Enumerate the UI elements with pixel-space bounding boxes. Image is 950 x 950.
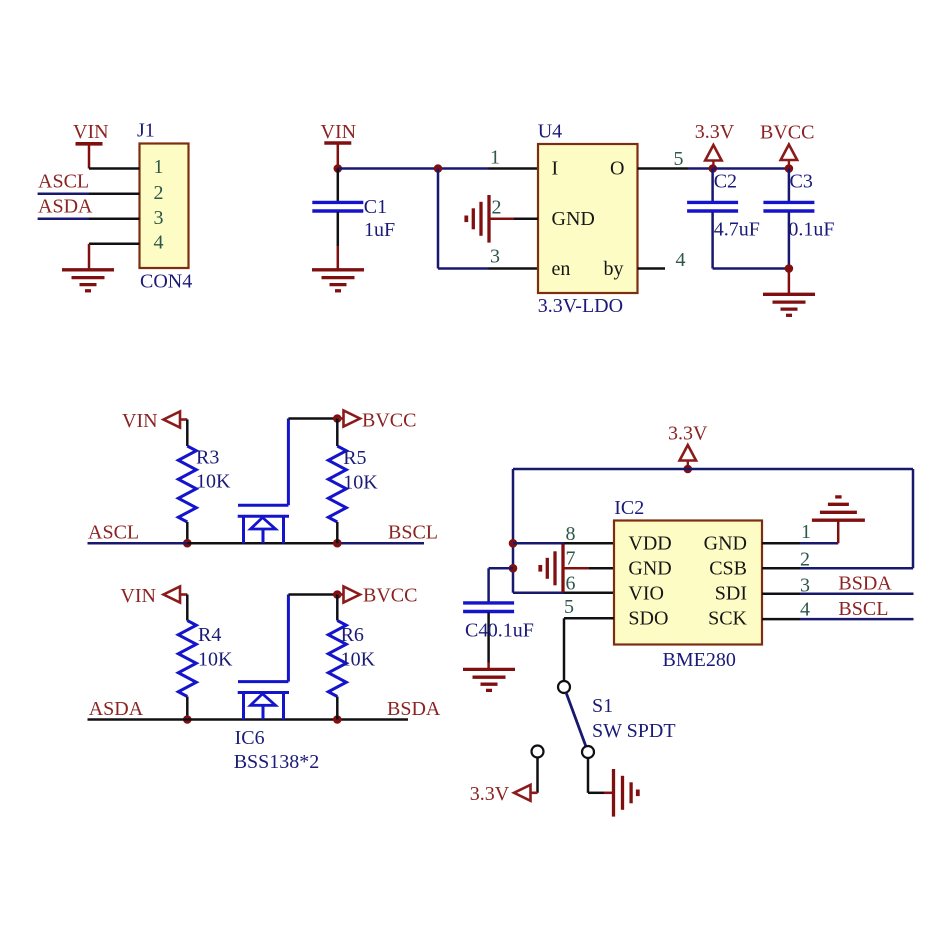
svg-text:3: 3: [154, 207, 164, 229]
resistor R4: [178, 621, 196, 697]
wire throw to 3.3V: [536, 758, 539, 793]
U4 pin name by: [604, 258, 624, 280]
value 3.3V-LDO: [538, 295, 623, 317]
node VDD junction: [509, 539, 518, 548]
node BSDA junction: [333, 715, 342, 724]
IC2 pin number 8: [566, 523, 576, 545]
power symbol BVCC (top): [760, 122, 814, 169]
node C4 junction: [509, 564, 518, 573]
svg-text:3.3V: 3.3V: [695, 121, 735, 143]
switch S1 blade: [566, 693, 586, 747]
svg-text:5: 5: [674, 148, 684, 170]
svg-text:5: 5: [564, 596, 574, 618]
svg-text:7: 7: [566, 548, 576, 570]
value BME280: [663, 649, 736, 671]
designator R3: [196, 447, 219, 469]
wire BSCL: [337, 542, 424, 545]
svg-text:2: 2: [492, 197, 502, 219]
IC2 pin name GND (left): [628, 558, 671, 580]
svg-text:O: O: [610, 158, 624, 180]
net label BSCL (IC2): [838, 598, 888, 620]
wire VIN to R3: [186, 420, 189, 447]
designator R5: [343, 447, 366, 469]
power symbol BVCC (arrow, shifter1): [337, 410, 416, 432]
wire junction to ground: [788, 269, 791, 295]
designator U4: [538, 121, 562, 143]
wire C2 bottom to C3 bottom: [713, 267, 789, 270]
svg-text:GND: GND: [704, 533, 747, 555]
resistor R3: [178, 446, 196, 522]
wire to IC2 VIO pin6: [513, 592, 614, 595]
designator IC6: [235, 727, 265, 749]
net label BSCL: [388, 522, 438, 544]
ground (J1): [62, 270, 114, 291]
U4 pin number 2: [492, 197, 502, 219]
svg-text:CSB: CSB: [709, 558, 747, 580]
wire VIN to R4: [186, 595, 189, 621]
node VIN junction: [334, 164, 343, 173]
svg-text:VIN: VIN: [120, 585, 156, 607]
designator C4: [465, 620, 488, 642]
svg-text:en: en: [552, 258, 571, 280]
IC2 pin name VIO: [628, 583, 664, 605]
wire IC2 pin2 to 3.3V rail: [762, 567, 913, 570]
wire IC2 pin5 (SDO) to S1: [564, 618, 614, 681]
power symbol VIN (bar) at C1: [321, 121, 357, 169]
ground (C4): [463, 669, 515, 690]
svg-text:VIN: VIN: [321, 121, 357, 143]
IC2 pin name SCK: [708, 608, 747, 630]
svg-text:10K: 10K: [343, 472, 378, 494]
svg-text:1uF: 1uF: [364, 219, 395, 241]
ground (C1): [312, 270, 364, 291]
wire ASDA to J1 pin3: [38, 218, 89, 221]
J1 pin 1: [89, 156, 164, 178]
node 3.3V junction (IC2): [684, 465, 693, 474]
svg-text:IC2: IC2: [614, 497, 644, 519]
wire pin1 ground stem: [837, 520, 840, 543]
net label ASCL: [88, 522, 139, 544]
svg-text:10K: 10K: [198, 649, 233, 671]
wire ASCL: [88, 542, 188, 545]
wire gate to BVCC junction (shifter2): [288, 593, 337, 596]
value 10K (R6): [341, 649, 376, 671]
wire BSDA: [337, 718, 408, 721]
transistor Q1 (BSS138 a): [238, 505, 289, 543]
designator J1: [137, 120, 155, 142]
net label BSDA: [387, 698, 441, 720]
svg-text:VIN: VIN: [73, 121, 109, 143]
IC2 pin number 4: [800, 599, 810, 621]
power symbol VIN (arrow, shifter1): [122, 410, 187, 432]
net label ASDA (J1): [38, 195, 93, 217]
value 10K (R5): [343, 472, 378, 494]
wire IC2 pin1 to ground: [762, 542, 838, 545]
svg-text:R3: R3: [196, 447, 219, 469]
svg-text:SDO: SDO: [628, 608, 668, 630]
svg-text:ASDA: ASDA: [89, 698, 144, 720]
U4 pin name en: [552, 258, 571, 280]
svg-text:BSCL: BSCL: [838, 598, 888, 620]
wire ASDA: [88, 718, 188, 721]
designator R4: [198, 624, 221, 646]
wire rail right vertical: [912, 469, 915, 568]
svg-text:ASCL: ASCL: [88, 522, 139, 544]
capacitor C1: [312, 169, 363, 247]
value label CON4: [140, 271, 192, 293]
IC2 pin name CSB: [709, 558, 747, 580]
svg-text:4: 4: [800, 599, 810, 621]
designator C1: [364, 196, 387, 218]
svg-text:4.7uF: 4.7uF: [714, 219, 760, 241]
svg-text:U4: U4: [538, 121, 562, 143]
svg-text:3.3V: 3.3V: [668, 423, 708, 445]
wire Q2 gate riser: [287, 595, 290, 682]
svg-text:BVCC: BVCC: [760, 122, 814, 144]
svg-text:by: by: [604, 258, 624, 280]
value BSS138*2: [234, 751, 320, 773]
switch S1 throw contact (gnd side): [582, 746, 594, 758]
IC2 pin name SDO: [628, 608, 668, 630]
svg-text:8: 8: [566, 523, 576, 545]
power symbol BVCC (arrow, shifter2): [337, 585, 417, 607]
svg-text:BVCC: BVCC: [362, 410, 416, 432]
node cap-ground junction: [785, 264, 794, 273]
svg-text:4: 4: [154, 232, 164, 254]
svg-text:GND: GND: [628, 558, 671, 580]
IC2 pin number 7: [566, 548, 576, 570]
svg-text:BSCL: BSCL: [388, 522, 438, 544]
designator S1: [592, 695, 613, 717]
wire to IC2 VDD pin8: [513, 542, 614, 545]
node en-branch junction: [434, 164, 443, 173]
wire VIN to U4 pin1: [338, 167, 538, 170]
node ASDA junction: [183, 715, 192, 724]
svg-text:1: 1: [801, 521, 811, 543]
designator R6: [341, 624, 364, 646]
svg-text:3.3V: 3.3V: [470, 783, 510, 805]
U4 pin 4 stub: [638, 267, 666, 270]
svg-text:10K: 10K: [196, 471, 231, 493]
IC2 pin name VDD: [628, 533, 671, 555]
designator C3: [790, 171, 813, 193]
wire C4 tap: [489, 568, 513, 602]
switch S1 common contact: [558, 681, 570, 693]
wire gate to BVCC junction: [288, 417, 337, 420]
designator C2: [714, 171, 737, 193]
svg-text:CON4: CON4: [140, 271, 192, 293]
node BVCC junction (shifter1): [333, 414, 342, 423]
svg-text:R6: R6: [341, 624, 364, 646]
svg-text:BSDA: BSDA: [387, 698, 441, 720]
svg-text:C4: C4: [465, 620, 488, 642]
svg-text:SCK: SCK: [708, 608, 747, 630]
ic IC2 box: [614, 521, 762, 645]
capacitor C3: [763, 169, 814, 269]
U4 pin name I: [552, 158, 559, 180]
ground (IC2 pin7, rotated): [540, 545, 589, 593]
svg-text:C3: C3: [790, 171, 813, 193]
node BVCC junction: [785, 164, 794, 173]
svg-text:ASDA: ASDA: [38, 195, 93, 217]
switch S1 throw contact (3.3V side): [532, 746, 544, 758]
net label BSDA (IC2): [838, 573, 892, 595]
ground (IC2 pin1, inverted): [812, 497, 865, 520]
J1 pin 4: [89, 232, 164, 254]
svg-text:VIO: VIO: [628, 583, 664, 605]
U4 pin name O: [610, 158, 624, 180]
IC2 pin number 6: [566, 572, 576, 594]
wire branch to U4 pin3(en): [438, 169, 538, 269]
regulator U4 box: [538, 144, 638, 293]
wire ASDA to BSDA (under Q2): [187, 718, 337, 721]
wire IC2 pin3 (SDI) out: [762, 593, 914, 596]
U4 pin 2 stub: [489, 218, 539, 221]
wire throw to ground: [588, 758, 613, 793]
svg-text:BME280: BME280: [663, 649, 736, 671]
wire R4 to ASDA: [186, 697, 189, 720]
node BSCL junction: [333, 539, 342, 548]
svg-text:SW SPDT: SW SPDT: [592, 720, 676, 742]
wire 3.3V to BVCC: [713, 167, 789, 170]
svg-text:R4: R4: [198, 624, 221, 646]
power symbol VIN (bar) at J1: [73, 121, 109, 169]
ground (S1, rotated): [614, 769, 638, 817]
power symbol 3.3V (arrow, S1): [470, 783, 538, 805]
svg-text:4: 4: [676, 249, 686, 271]
svg-text:0.1uF: 0.1uF: [488, 620, 534, 642]
U4 pin name GND: [552, 208, 595, 230]
value SW SPDT: [592, 720, 676, 742]
wire C1 to ground: [337, 246, 340, 270]
J1 pin 3: [89, 207, 164, 229]
svg-text:S1: S1: [592, 695, 613, 717]
capacitor C4: [463, 603, 514, 663]
svg-text:10K: 10K: [341, 649, 376, 671]
U4 pin number 4: [676, 249, 686, 271]
capacitor C2: [687, 169, 738, 269]
connector J1 box: [140, 144, 189, 269]
transistor Q2 (BSS138 b): [238, 682, 289, 720]
IC2 pin name SDI: [715, 583, 747, 605]
IC2 pin number 5: [564, 596, 574, 618]
power symbol VIN (arrow, shifter2): [120, 585, 187, 607]
svg-text:R5: R5: [343, 447, 366, 469]
svg-text:3: 3: [490, 246, 500, 268]
resistor R6: [328, 595, 346, 720]
svg-text:1: 1: [490, 147, 500, 169]
svg-text:3.3V-LDO: 3.3V-LDO: [538, 295, 623, 317]
svg-text:VDD: VDD: [628, 533, 671, 555]
U4 pin number 3: [490, 246, 500, 268]
wire ASCL to BSCL (under Q1): [187, 542, 337, 545]
svg-text:BSDA: BSDA: [838, 573, 892, 595]
wire IC2 pin4 (SCK) out: [762, 618, 914, 621]
wire J1 pin4 to ground: [88, 244, 91, 270]
power symbol 3.3V (IC2): [668, 423, 708, 470]
IC2 pin7 stub: [588, 567, 614, 570]
svg-text:GND: GND: [552, 208, 595, 230]
U4 pin number 5: [674, 148, 684, 170]
svg-text:I: I: [552, 158, 559, 180]
svg-text:BVCC: BVCC: [363, 585, 417, 607]
U4 pin number 1: [490, 147, 500, 169]
value 10K (R4): [198, 649, 233, 671]
svg-text:J1: J1: [137, 120, 155, 142]
designator IC2: [614, 497, 644, 519]
IC2 pin number 2: [800, 549, 810, 571]
power symbol 3.3V (top): [695, 121, 735, 168]
node 3.3V junction: [709, 164, 718, 173]
net label ASCL (J1): [38, 171, 89, 193]
IC2 pin name GND (right): [704, 533, 747, 555]
svg-text:SDI: SDI: [715, 583, 747, 605]
IC2 pin number 1: [801, 521, 811, 543]
svg-text:BSS138*2: BSS138*2: [234, 751, 320, 773]
svg-text:C1: C1: [364, 196, 387, 218]
J1 pin 2: [89, 182, 164, 204]
IC2 pin number 3: [800, 575, 810, 597]
node BVCC junction (shifter2): [333, 590, 342, 599]
wire rail left vertical: [512, 469, 515, 593]
value 0.1uF (C3): [788, 219, 834, 241]
resistor R5: [328, 419, 346, 544]
svg-text:2: 2: [154, 182, 164, 204]
wire C4 to ground: [487, 663, 490, 670]
ground (U4 pin2, rotated): [466, 195, 514, 243]
svg-text:C2: C2: [714, 171, 737, 193]
ground (C2/C3): [763, 294, 815, 315]
value 4.7uF: [714, 219, 760, 241]
value 0.1uF (C4): [488, 620, 534, 642]
svg-text:IC6: IC6: [235, 727, 265, 749]
wire 3.3V rail top: [513, 468, 913, 471]
U4 pin 5 wire: [638, 167, 713, 170]
wire ASCL to J1 pin2: [38, 193, 89, 196]
node ASCL junction: [183, 539, 192, 548]
wire R3 to ASCL: [186, 522, 189, 543]
svg-text:1: 1: [154, 156, 164, 178]
value 1uF: [364, 219, 395, 241]
svg-text:6: 6: [566, 572, 576, 594]
svg-text:VIN: VIN: [122, 410, 158, 432]
svg-text:0.1uF: 0.1uF: [788, 219, 834, 241]
svg-text:ASCL: ASCL: [38, 171, 89, 193]
value 10K (R3): [196, 471, 231, 493]
net label ASDA: [89, 698, 144, 720]
wire Q1 gate riser: [287, 419, 290, 506]
